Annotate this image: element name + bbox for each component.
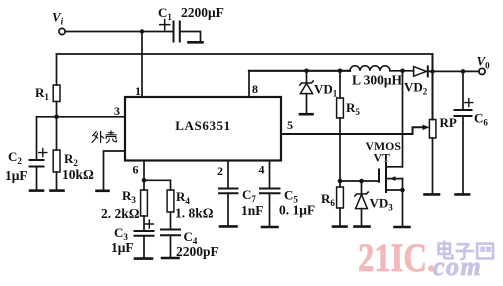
wire pin6 to R4	[144, 180, 171, 190]
wire C1 to ground	[180, 32, 201, 42]
label case (Chinese wai-ke)	[92, 131, 117, 143]
inductor L 300uH	[350, 66, 390, 71]
node junction VD3	[359, 179, 364, 184]
potentiometer RP	[429, 120, 436, 139]
wire drain vertical	[402, 71, 404, 167]
svg-text:1nF: 1nF	[241, 203, 264, 218]
wire rail to VD2 cathode / RP	[432, 54, 434, 120]
svg-text:1μF: 1μF	[5, 168, 28, 183]
wire pin3	[37, 116, 126, 118]
ground VT source	[395, 226, 410, 229]
capacitor C3	[135, 231, 154, 236]
svg-text:0. 1μF: 0. 1μF	[279, 203, 315, 218]
svg-text:L 300μH: L 300μH	[352, 73, 403, 88]
svg-text:com: com	[433, 252, 482, 281]
svg-text:RP: RP	[440, 115, 457, 130]
node junction Vi rail / pin1	[140, 29, 144, 33]
ground C6	[456, 193, 470, 196]
resistor R3	[143, 180, 145, 190]
svg-text:3: 3	[114, 104, 120, 118]
svg-text:4: 4	[259, 163, 265, 177]
wire pin1 vertical	[141, 32, 143, 98]
svg-text:2200pF: 2200pF	[176, 244, 219, 259]
wire case pin	[104, 151, 126, 190]
wiper arrowhead RP	[423, 125, 430, 130]
capacitor C5	[260, 189, 280, 194]
svg-text:VT: VT	[374, 151, 391, 165]
ground C2	[30, 189, 43, 192]
resistor R1	[53, 85, 60, 102]
svg-text:21IC.: 21IC.	[358, 235, 436, 280]
svg-text:1. 8kΩ: 1. 8kΩ	[175, 206, 214, 221]
ground C5	[262, 226, 278, 229]
diode VD3 zener	[361, 181, 363, 194]
capacitor C6	[462, 71, 464, 110]
op-amp U1 LAS6351 box	[125, 97, 281, 161]
wire pin8	[248, 71, 250, 97]
svg-text:5: 5	[287, 118, 293, 132]
ground C1	[189, 41, 203, 44]
node junction pin6	[142, 178, 147, 183]
resistor R4	[167, 190, 174, 212]
wire pin6	[143, 161, 145, 181]
svg-text:2: 2	[217, 164, 223, 178]
resistor R2	[53, 150, 60, 172]
resistor R5	[339, 71, 341, 98]
node junction R5	[338, 69, 343, 74]
wire rail to R1	[56, 54, 58, 85]
ground VD1	[300, 113, 313, 116]
resistor R6	[339, 181, 341, 187]
wire pin4	[269, 161, 271, 189]
capacitor C1	[174, 22, 180, 42]
terminal Vo	[479, 68, 485, 74]
capacitor C2	[30, 160, 44, 167]
wire to R2	[56, 117, 58, 150]
svg-text:1μF: 1μF	[111, 240, 134, 255]
diode VD1 zener	[306, 71, 308, 83]
terminal Vi	[59, 28, 65, 34]
watermark dianzi-wang (Chinese)	[439, 241, 494, 260]
diode VD2	[414, 67, 427, 77]
node junction VD1	[304, 69, 309, 74]
wire pin5 to RP wiper	[281, 127, 424, 134]
capacitor C4	[161, 230, 180, 236]
ground VD3	[355, 225, 370, 228]
ground C4	[162, 257, 179, 260]
ground C3	[135, 257, 152, 260]
watermark 21IC	[358, 235, 436, 280]
svg-text:1: 1	[135, 84, 141, 98]
node junction R1/R2/C2/pin3	[54, 115, 59, 120]
ground C7	[220, 225, 237, 228]
transistor VT VMOS	[378, 170, 380, 182]
svg-text:2200μF: 2200μF	[181, 5, 224, 20]
node junction gate/R6	[338, 179, 343, 184]
svg-text:6: 6	[133, 163, 139, 177]
svg-text:2. 2kΩ: 2. 2kΩ	[101, 206, 140, 221]
wire Vi to C1	[65, 31, 173, 33]
svg-text:LAS6351: LAS6351	[175, 118, 231, 133]
ground case	[97, 190, 109, 193]
wire boost node	[249, 70, 350, 72]
wire gate	[340, 180, 379, 182]
svg-text:8: 8	[252, 82, 258, 96]
svg-text:10kΩ: 10kΩ	[62, 167, 94, 182]
wire feedback rail	[57, 53, 433, 55]
ground RP	[425, 193, 440, 196]
wire to C2	[36, 117, 38, 160]
node junction C6	[461, 69, 466, 74]
node junction drain	[400, 69, 405, 74]
wire pin2	[227, 161, 229, 189]
capacitor C7	[219, 189, 238, 194]
ground R6	[333, 225, 347, 228]
ground R2	[51, 189, 64, 192]
